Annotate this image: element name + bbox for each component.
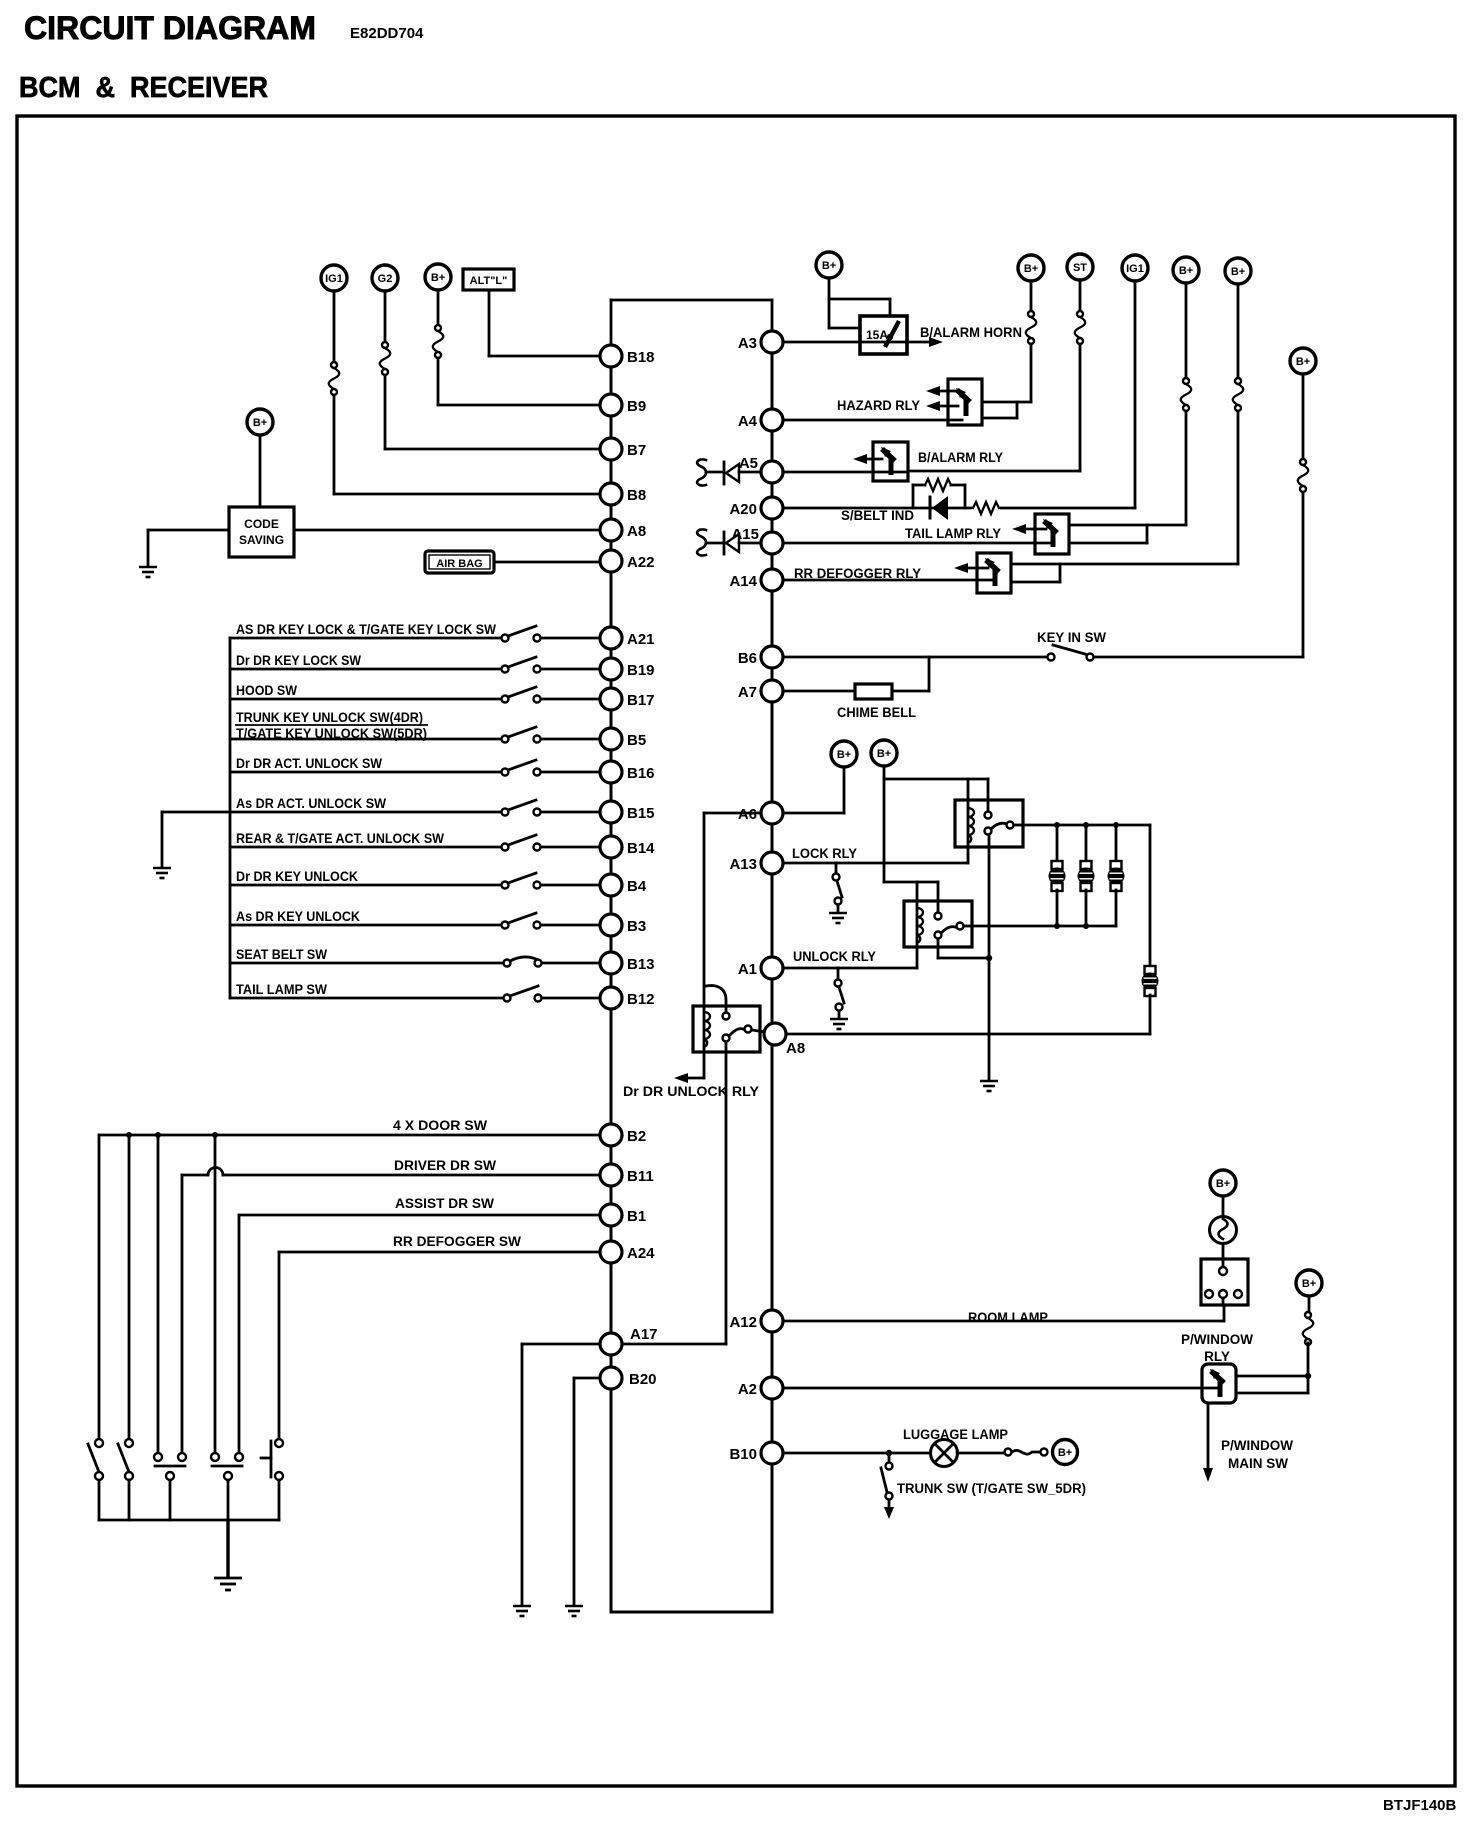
svg-text:B14: B14 <box>627 840 655 857</box>
svg-text:LOCK RLY: LOCK RLY <box>792 846 857 861</box>
power symbol B+ (room lamp) <box>1210 1170 1236 1196</box>
wire pin B11 driver dr sw with hop <box>182 1168 600 1176</box>
pin A5 <box>739 455 783 483</box>
svg-text:Dr DR KEY UNLOCK: Dr DR KEY UNLOCK <box>236 869 358 884</box>
pin B1 <box>600 1204 646 1226</box>
svg-text:B+: B+ <box>1302 1278 1316 1290</box>
svg-text:A22: A22 <box>627 554 655 571</box>
switch SW-B4 Dr DR KEY UNLOCK <box>230 869 600 889</box>
relay K7 Dr DR UNLOCK RLY <box>693 986 765 1052</box>
wire pin A24 rr defogger sw <box>279 1251 600 1254</box>
pin B20 <box>600 1367 657 1389</box>
svg-text:B12: B12 <box>627 991 655 1008</box>
svg-text:B19: B19 <box>627 662 655 679</box>
power symbol B+ (tail lamp) <box>1173 257 1199 283</box>
svg-text:B18: B18 <box>627 349 655 366</box>
switch SW-B16 Dr DR ACT. UNLOCK SW <box>230 756 600 776</box>
svg-text:B/ALARM RLY: B/ALARM RLY <box>918 450 1003 465</box>
wire B+ feed into fuse box <box>829 278 890 328</box>
pin A22 <box>600 550 655 572</box>
wire IG1 to pin B8 with fusible link <box>329 291 600 494</box>
wire G2 to pin B7 with fusible link <box>380 291 600 449</box>
svg-text:B+: B+ <box>1296 356 1310 368</box>
power symbol B+ (b/alarm horn) <box>816 252 842 278</box>
wire AIR BAG to pin A22 <box>494 561 600 564</box>
svg-text:B+: B+ <box>822 260 836 272</box>
wire assist dr sw column <box>238 1215 241 1453</box>
svg-text:A8: A8 <box>627 523 646 540</box>
svg-text:G2: G2 <box>378 273 393 285</box>
svg-text:A13: A13 <box>729 856 757 873</box>
room lamp bulb <box>1210 1217 1237 1244</box>
svg-text:A14: A14 <box>729 573 757 590</box>
switch SW-B3 As DR KEY UNLOCK <box>230 909 600 929</box>
wire hazard relay right stub <box>982 402 1017 418</box>
door switch SW1 <box>88 1439 103 1520</box>
svg-text:A24: A24 <box>627 1245 655 1262</box>
svg-text:B+: B+ <box>1058 1447 1072 1459</box>
svg-text:15A: 15A <box>866 328 888 342</box>
pin A24 <box>600 1241 655 1263</box>
wire B+ to p/window relay with fusible link <box>1303 1296 1314 1376</box>
wire tail lamp relay right stub <box>1069 525 1147 543</box>
svg-text:As DR KEY UNLOCK: As DR KEY UNLOCK <box>236 909 360 924</box>
pin A3 <box>738 331 783 353</box>
power symbol ST <box>1067 254 1093 280</box>
pin A7 <box>738 680 783 702</box>
svg-text:B+: B+ <box>1179 265 1193 277</box>
svg-text:B5: B5 <box>627 732 646 749</box>
wire bus branch to ground <box>162 812 230 867</box>
wire door sw column 2 <box>128 1135 131 1439</box>
wire coil to diode <box>706 471 722 474</box>
pin A20 <box>729 497 783 519</box>
svg-text:A8: A8 <box>786 1040 805 1057</box>
power symbol B+ (code saving) <box>247 409 273 435</box>
pin B13 <box>600 952 655 974</box>
wire bottom link B20/B10 <box>611 1611 772 1614</box>
suppressor coil at A15 input <box>697 530 706 556</box>
wire pin A15 to tail lamp relay <box>783 542 1050 545</box>
svg-text:Dr DR KEY LOCK SW: Dr DR KEY LOCK SW <box>236 653 361 668</box>
LED S/BELT IND diode <box>930 496 948 520</box>
door lock motor M4 (right column) <box>1142 966 1159 1034</box>
pin B15 <box>600 801 655 823</box>
pin B5 <box>600 728 646 750</box>
arrow hazard output lower <box>926 401 958 411</box>
svg-text:A12: A12 <box>729 1314 757 1331</box>
switch SW-A21 AS DR KEY LOCK & T/GATE KEY LOCK SW <box>230 622 600 642</box>
wire BCM top link between buses <box>611 300 772 345</box>
switch SW-B17 HOOD SW <box>230 683 600 703</box>
svg-text:B15: B15 <box>627 805 655 822</box>
relay K4 RR DEFOGGER RLY <box>977 553 1011 593</box>
arrow Dr DR unlock coil output <box>674 1052 704 1083</box>
wire CODE SAVING to pin A8 (left) <box>294 529 600 532</box>
wire coil to diode (A15) <box>706 542 722 545</box>
pin A13 <box>729 852 783 874</box>
svg-text:A17: A17 <box>630 1326 658 1343</box>
svg-text:CODE: CODE <box>244 517 279 531</box>
switch below unlock rly <box>835 968 845 1018</box>
svg-text:A7: A7 <box>738 684 757 701</box>
svg-text:B/ALARM HORN: B/ALARM HORN <box>920 325 1022 340</box>
suppressor coil at A5 input <box>697 460 706 486</box>
svg-text:As DR ACT. UNLOCK SW: As DR ACT. UNLOCK SW <box>236 796 386 811</box>
svg-text:CHIME BELL: CHIME BELL <box>837 705 916 720</box>
wire pin A1 to unlock coil <box>783 967 917 970</box>
wire rr defogger relay lower stub <box>1011 564 1060 582</box>
svg-text:A3: A3 <box>738 335 757 352</box>
ground (lock/unlock common) <box>980 1081 998 1091</box>
svg-text:A20: A20 <box>729 501 757 518</box>
wire rr defogger sw column <box>278 1252 281 1439</box>
svg-text:ALT"L": ALT"L" <box>470 275 508 287</box>
svg-text:4 X DOOR SW: 4 X DOOR SW <box>393 1118 487 1133</box>
power symbol B+ (p/window) <box>1296 1270 1322 1296</box>
wire lock output bus top <box>1023 822 1150 966</box>
pin B2 <box>600 1124 646 1146</box>
svg-text:A1: A1 <box>738 961 757 978</box>
wire ST to b/alarm relay with fusible link <box>908 280 1085 471</box>
wire pin B10 to luggage lamp <box>783 1450 930 1456</box>
door switch SW4 (dual contact) <box>211 1453 243 1520</box>
wire B+ to pin B9 with fusible link <box>433 290 600 405</box>
switch KEY IN SW <box>1048 645 1094 661</box>
svg-text:B7: B7 <box>627 442 646 459</box>
wire ALT"L" to pin B18 <box>489 290 600 356</box>
arrow rr defogger rly output <box>954 563 988 573</box>
wire BCM left bus <box>610 345 613 1612</box>
arrow output to b/alarm horn <box>885 337 943 347</box>
svg-text:B4: B4 <box>627 878 647 895</box>
wire B+ to hazard relay with fusible link <box>982 281 1036 402</box>
wire pin A12 room lamp <box>783 1305 1224 1321</box>
pin A8 left <box>600 519 646 541</box>
svg-text:BCM & RECEIVER: BCM & RECEIVER <box>19 72 268 104</box>
svg-text:RR DEFOGGER SW: RR DEFOGGER SW <box>393 1234 521 1249</box>
power tag ALT"L" <box>463 269 514 290</box>
switch below lock rly <box>833 863 843 912</box>
luggage lamp bulb <box>931 1440 958 1467</box>
door switch SW2 <box>118 1439 133 1520</box>
svg-text:TAIL LAMP SW: TAIL LAMP SW <box>236 982 327 997</box>
wire pin A6 to B+ <box>783 767 844 813</box>
wire pin A7 to chime bell <box>783 690 855 693</box>
pin B14 <box>600 836 655 858</box>
pin B4 <box>600 874 647 896</box>
svg-text:B+: B+ <box>431 272 445 284</box>
svg-text:B2: B2 <box>627 1128 646 1145</box>
wire Dr DR unlock contact down to A17 <box>725 1042 728 1344</box>
svg-text:A5: A5 <box>739 455 758 472</box>
chime bell element <box>855 684 892 699</box>
svg-text:KEY IN SW: KEY IN SW <box>1037 630 1106 645</box>
pushbutton switch SW5 (rr defogger) <box>261 1439 283 1520</box>
wire unlock contact join to ground line <box>938 939 992 961</box>
wire pin A17 to left ground <box>522 1344 600 1605</box>
svg-text:SEAT BELT SW: SEAT BELT SW <box>236 947 327 962</box>
wire pin A5 to b/alarm relay <box>783 471 908 474</box>
arrow tail lamp rly output <box>1012 524 1046 534</box>
wire pin B20 to left ground <box>574 1378 600 1605</box>
wire unlock output bus bottom <box>972 923 1116 929</box>
pin B6 <box>738 646 783 668</box>
svg-text:LUGGAGE LAMP: LUGGAGE LAMP <box>903 1427 1008 1442</box>
svg-text:AS DR KEY LOCK & T/GATE KEY LO: AS DR KEY LOCK & T/GATE KEY LOCK SW <box>236 622 496 637</box>
wire B+ to CODE SAVING box <box>259 435 262 507</box>
switch SW-B14 REAR & T/GATE ACT. UNLOCK SW <box>230 831 600 851</box>
svg-text:E82DD704: E82DD704 <box>350 25 424 42</box>
wire B+ to rr defogger relay with fusible link <box>1011 284 1243 564</box>
svg-text:ROOM LAMP: ROOM LAMP <box>968 1310 1048 1325</box>
diode D2 at A15 <box>724 532 761 554</box>
svg-text:TRUNK SW (T/GATE SW_5DR): TRUNK SW (T/GATE SW_5DR) <box>897 1481 1086 1496</box>
switch TRUNK SW <box>881 1453 894 1519</box>
label P/WINDOW MAIN SW <box>1221 1438 1293 1471</box>
resistor R2 on wire <box>972 501 1000 515</box>
fuse F1 15A b/alarm horn <box>860 316 907 354</box>
wire pin A13 to lock coil <box>783 862 968 865</box>
svg-text:B11: B11 <box>627 1168 654 1185</box>
svg-text:DRIVER DR SW: DRIVER DR SW <box>394 1158 496 1173</box>
svg-text:REAR & T/GATE ACT. UNLOCK SW: REAR & T/GATE ACT. UNLOCK SW <box>236 831 444 846</box>
svg-text:A15: A15 <box>731 526 759 543</box>
wire pin B1 assist dr sw <box>239 1214 600 1217</box>
switch SW-B15 As DR ACT. UNLOCK SW <box>230 796 600 816</box>
label P/WINDOW RLY <box>1181 1332 1253 1364</box>
power symbol B+ (rr defogger) <box>1225 258 1251 284</box>
pin B18 <box>600 345 655 367</box>
wire B+ to key in sw with fusible link <box>1094 374 1308 657</box>
wire B+ to room lamp bulb <box>1222 1196 1225 1217</box>
svg-text:B17: B17 <box>627 692 655 709</box>
svg-text:A4: A4 <box>738 413 758 430</box>
ground (unlock switch) <box>830 1019 848 1029</box>
door lock motor M2 <box>1078 825 1095 926</box>
power symbol G2 <box>372 265 398 291</box>
svg-text:RR DEFOGGER RLY: RR DEFOGGER RLY <box>794 566 921 581</box>
wire pin A17 right to Dr DR unlock contact <box>622 1343 726 1346</box>
wire B+ feed to unlock relay <box>884 882 938 912</box>
pin B19 <box>600 658 655 680</box>
svg-text:IG1: IG1 <box>325 273 343 285</box>
wire pin B6 to key in sw <box>783 656 1047 659</box>
svg-text:ASSIST DR SW: ASSIST DR SW <box>395 1196 494 1211</box>
wire B+ to tail lamp relay with fusible link <box>1069 283 1191 525</box>
pin A4 <box>738 409 783 431</box>
wire left switch bus <box>229 638 232 998</box>
wire chime bell up to B6 line <box>892 657 929 691</box>
diode D1 at A5 <box>724 462 761 484</box>
pin A2 <box>738 1377 783 1399</box>
resistor R1 bypass loop <box>913 479 965 508</box>
relay K6 UNLOCK RLY <box>904 901 972 968</box>
svg-text:B9: B9 <box>627 398 646 415</box>
relay K3 TAIL LAMP RLY <box>1035 514 1069 554</box>
svg-text:ST: ST <box>1073 262 1087 274</box>
pin B7 <box>600 438 646 460</box>
pin A14 <box>729 569 783 591</box>
switch SW-B12 TAIL LAMP SW <box>230 982 600 1002</box>
relay K1 HAZARD RLY <box>948 379 982 425</box>
svg-text:Dr DR UNLOCK RLY: Dr DR UNLOCK RLY <box>623 1084 759 1099</box>
pin B3 <box>600 914 646 936</box>
svg-text:RLY: RLY <box>1204 1349 1230 1364</box>
svg-text:B+: B+ <box>253 417 267 429</box>
svg-text:MAIN SW: MAIN SW <box>1228 1456 1288 1471</box>
svg-text:B1: B1 <box>627 1208 646 1225</box>
air bag tag <box>425 551 494 573</box>
svg-text:IG1: IG1 <box>1126 263 1144 275</box>
pin A21 <box>600 627 655 649</box>
svg-text:HAZARD RLY: HAZARD RLY <box>837 398 920 413</box>
power symbol B+ (A6) <box>831 741 857 767</box>
arrow p/window relay to main sw <box>1203 1403 1213 1482</box>
svg-text:HOOD SW: HOOD SW <box>236 683 297 698</box>
svg-text:S/BELT IND: S/BELT IND <box>841 508 914 523</box>
power symbol B+ (hazard) <box>1018 255 1044 281</box>
svg-text:A21: A21 <box>627 631 655 648</box>
code saving box U1 <box>229 507 294 557</box>
power symbol B+ (luggage lamp) <box>1053 1440 1078 1465</box>
svg-text:P/WINDOW: P/WINDOW <box>1181 1332 1253 1347</box>
relay K2 B/ALARM RLY <box>873 442 908 481</box>
wire switch ground bus <box>99 1519 279 1522</box>
ground (lock switch) <box>829 913 847 923</box>
wire pin A4 to hazard relay <box>783 419 962 422</box>
pin B12 <box>600 987 655 1009</box>
ground (switch bus) <box>153 868 171 878</box>
wire bulb to connector <box>1222 1244 1225 1259</box>
switch SW-B19 Dr DR KEY LOCK SW <box>230 653 600 673</box>
svg-text:B+: B+ <box>1024 263 1038 275</box>
connector with pigtail to B+ <box>1005 1449 1048 1456</box>
wire B+ feed to lock relay <box>884 766 988 882</box>
svg-text:CIRCUIT DIAGRAM: CIRCUIT DIAGRAM <box>24 10 316 46</box>
svg-text:B20: B20 <box>629 1371 657 1388</box>
svg-text:B+: B+ <box>1216 1178 1230 1190</box>
wire door sw column 3 <box>157 1135 160 1453</box>
connector (room lamp) <box>1201 1259 1248 1305</box>
power symbol IG1 (s/belt) <box>1122 255 1148 281</box>
switch SW-B13 SEAT BELT SW <box>230 947 600 967</box>
wire pin A8 row to motor column <box>787 1033 1150 1036</box>
svg-text:P/WINDOW: P/WINDOW <box>1221 1438 1293 1453</box>
pin A6 <box>738 802 783 824</box>
power symbol B+ (lock/unlock feed) <box>871 740 897 766</box>
wire lock contact to ground <box>988 835 991 1080</box>
svg-text:TAIL LAMP RLY: TAIL LAMP RLY <box>905 526 1001 541</box>
pin A17 <box>600 1326 658 1355</box>
wire luggage lamp to connector <box>957 1452 1004 1455</box>
pin B17 <box>600 688 655 710</box>
wire door sw column 1 <box>98 1135 101 1439</box>
power symbol IG1 (top-left) <box>321 265 347 291</box>
pin A8 right <box>764 1023 805 1057</box>
switch SW-B5 TRUNK KEY UNLOCK SW <box>230 710 600 743</box>
svg-text:Dr DR ACT. UNLOCK SW: Dr DR ACT. UNLOCK SW <box>236 756 382 771</box>
wire pin A14 to rr defogger relay <box>783 579 992 582</box>
wire BCM right bus <box>771 331 774 1612</box>
svg-text:B6: B6 <box>738 650 757 667</box>
ground (door switches) <box>214 1578 242 1590</box>
relay K8 P/WINDOW RLY <box>1202 1364 1236 1403</box>
wire CODE SAVING to ground <box>148 530 229 566</box>
svg-text:A6: A6 <box>738 806 757 823</box>
wire A6 left branch down to Dr DR unlock coil <box>704 813 761 1006</box>
relay K5 LOCK RLY <box>955 800 1023 863</box>
svg-text:TRUNK KEY UNLOCK SW(4DR): TRUNK KEY UNLOCK SW(4DR) <box>236 710 423 725</box>
svg-text:B+: B+ <box>877 748 891 760</box>
wire pin A2 to p/window relay <box>783 1387 1218 1390</box>
svg-text:B+: B+ <box>1231 266 1245 278</box>
wire driver dr sw column <box>181 1175 184 1453</box>
svg-text:B10: B10 <box>729 1446 757 1463</box>
wire pin A3 to fuse box <box>783 341 884 344</box>
door lock motor M3 <box>1108 825 1125 926</box>
svg-text:B3: B3 <box>627 918 646 935</box>
arrow b/alarm rly output <box>853 454 882 464</box>
pin A15 <box>731 526 783 554</box>
power symbol B+ (third) <box>425 264 451 290</box>
svg-text:UNLOCK RLY: UNLOCK RLY <box>793 949 876 964</box>
wire bus to ground <box>226 1520 229 1577</box>
power symbol B+ (key in) <box>1290 348 1316 374</box>
svg-text:B16: B16 <box>627 765 655 782</box>
pin B9 <box>600 394 646 416</box>
svg-text:B+: B+ <box>837 749 851 761</box>
svg-text:A2: A2 <box>738 1381 757 1398</box>
wire pin B2 4x door sw <box>99 1132 600 1138</box>
ground (code saving) <box>139 567 157 577</box>
svg-text:B13: B13 <box>627 956 655 973</box>
ground (B20) <box>565 1606 583 1616</box>
pin B10 <box>729 1442 783 1464</box>
svg-text:BTJF140B: BTJF140B <box>1383 1797 1457 1814</box>
door switch SW3 (dual contact) <box>154 1453 186 1520</box>
pin B16 <box>600 761 655 783</box>
pin A1 <box>738 957 783 979</box>
pin B11 <box>600 1164 654 1186</box>
arrow hazard output upper <box>926 386 958 396</box>
svg-text:B8: B8 <box>627 487 646 504</box>
wire IG1 down to s/belt wire <box>1134 281 1137 508</box>
wire p/window relay right stubs <box>1236 1373 1311 1393</box>
wire door sw column 4 <box>214 1135 217 1453</box>
pin B8 <box>600 483 646 505</box>
pin A12 <box>729 1310 783 1332</box>
svg-text:SAVING: SAVING <box>239 533 284 547</box>
ground (A17) <box>513 1606 531 1616</box>
wire pin A20 seat belt indicator line <box>783 507 1135 510</box>
svg-text:AIR BAG: AIR BAG <box>436 558 482 570</box>
door lock motor M1 <box>1049 825 1066 926</box>
